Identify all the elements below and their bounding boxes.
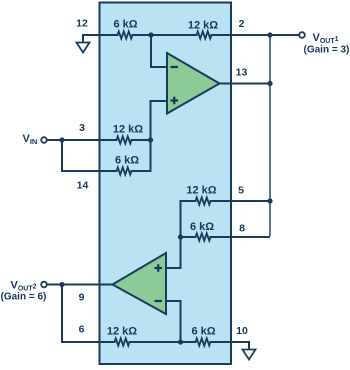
- wire: ground stub at pin 12: [82, 35, 84, 43]
- svg-text:12 kΩ: 12 kΩ: [113, 124, 143, 136]
- resistor 6k (pin 8 net): [196, 233, 211, 240]
- ground (pin 10): [243, 350, 256, 360]
- wire: top net between 6k and 12k resistors: [133, 34, 197, 36]
- svg-text:6: 6: [79, 324, 85, 336]
- resistor 12k (pin 2 net): [197, 31, 212, 38]
- op-amp U1: [167, 53, 220, 114]
- wire: pin 8 net left of 6k resistor: [181, 236, 196, 238]
- svg-text:VOUT1: VOUT1: [313, 32, 339, 45]
- svg-text:VIN: VIN: [23, 133, 38, 146]
- wire: node to op-amp U2 non-inverting input: [166, 238, 181, 268]
- resistor 12k (pin 6 net): [115, 338, 130, 345]
- svg-text:(Gain = 6): (Gain = 6): [1, 292, 47, 303]
- svg-text:12 kΩ: 12 kΩ: [186, 185, 216, 197]
- U2 inverting input symbol: [155, 300, 163, 302]
- IC body (quad op-amp package): [100, 3, 232, 365]
- svg-text:6 kΩ: 6 kΩ: [113, 19, 137, 31]
- wire: U1 non-inverting input from mid resistor node: [151, 101, 167, 139]
- wire: pin 5 net from feedback column to 12k resistor: [211, 200, 270, 202]
- wire: pin 8 net from feedback column to 6k resistor: [211, 236, 270, 238]
- terminal: VOUT1: [299, 32, 305, 38]
- junction: mid resistor node: [148, 137, 153, 142]
- svg-text:9: 9: [79, 292, 85, 304]
- resistor 12k (pin 3 net): [117, 136, 132, 143]
- svg-text:10: 10: [236, 325, 248, 337]
- junction: pin 5 net / feedback column: [267, 198, 272, 203]
- svg-text:2: 2: [239, 18, 245, 30]
- wire: 6k pin-14 resistor up to mid node: [132, 141, 151, 171]
- svg-text:13: 13: [236, 67, 248, 79]
- terminal: VIN: [41, 137, 47, 143]
- junction: bottom net / U2 inverting feedback: [178, 339, 183, 344]
- svg-text:6 kΩ: 6 kΩ: [190, 221, 214, 233]
- wire: top net y=35 from ground stub to 6k resistor: [83, 34, 118, 36]
- svg-text:6 kΩ: 6 kΩ: [115, 155, 139, 167]
- junction: top net / right feedback column: [267, 32, 272, 37]
- resistor 6k (pin 10 net): [196, 338, 211, 345]
- junction: VOUT2 node: [59, 282, 64, 287]
- wire: right feedback column x=270: [269, 36, 271, 236]
- U2 non-inverting input symbol: [155, 264, 163, 272]
- terminal: VOUT2: [41, 282, 47, 288]
- svg-text:12: 12: [76, 18, 88, 30]
- svg-text:14: 14: [77, 180, 89, 192]
- wire: bottom net between 12k and 6k resistors: [130, 341, 196, 343]
- U1 non-inverting input symbol: [171, 97, 179, 105]
- wire: feedback from node to op-amp U1 inverting input: [151, 36, 166, 67]
- svg-text:3: 3: [79, 122, 85, 134]
- U1 inverting input symbol: [171, 66, 179, 68]
- svg-text:12 kΩ: 12 kΩ: [107, 326, 137, 338]
- wire: VIN branch down to pin 14: [62, 141, 117, 171]
- wire: VIN terminal to 12k resistor: [48, 139, 117, 141]
- wire: U2 output to VOUT2 terminal: [48, 284, 112, 286]
- junction: U1 output / feedback column: [267, 81, 272, 86]
- junction: VIN node: [59, 137, 64, 142]
- wire: pin 5 net left of 12k resistor: [181, 201, 196, 236]
- resistor 6k (pin 12 net): [118, 31, 133, 38]
- resistor 6k (pin 14 net): [117, 167, 132, 174]
- ground (pin 12): [77, 43, 90, 53]
- op-amp U2: [113, 253, 167, 314]
- wire: U1 output to feedback column: [220, 83, 269, 85]
- junction: pin 8 net / U2 non-inverting branch: [178, 234, 183, 239]
- svg-text:(Gain = 3): (Gain = 3): [304, 45, 350, 56]
- svg-text:12 kΩ: 12 kΩ: [188, 20, 218, 32]
- svg-text:6 kΩ: 6 kΩ: [191, 326, 215, 338]
- wire: pin 2 out to VOUT1 terminal: [212, 34, 299, 36]
- wire: VOUT2 node down to pin 6: [62, 286, 115, 343]
- wire: U2 inverting input to bottom net: [166, 301, 181, 341]
- wire: 12k resistor to mid node: [132, 139, 151, 141]
- svg-text:5: 5: [238, 185, 244, 197]
- resistor 12k (pin 5 net): [196, 197, 211, 204]
- svg-text:8: 8: [239, 223, 245, 235]
- wire: pin 10 out to ground: [211, 342, 250, 350]
- junction: top net / U1 inverting feedback: [148, 32, 153, 37]
